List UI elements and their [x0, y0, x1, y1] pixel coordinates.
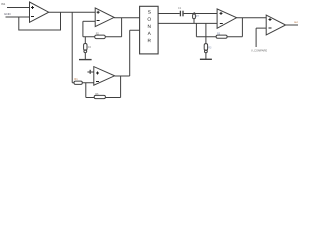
- wire R7 down: [193, 19, 195, 24]
- svg-text:R6: R6: [95, 92, 99, 96]
- resistor R1: [74, 81, 82, 84]
- svg-text:A: A: [148, 31, 152, 37]
- svg-text:GND: GND: [4, 12, 12, 16]
- resistor R3: [204, 44, 207, 51]
- ground 2: [200, 58, 212, 60]
- wire U3 feedback bottom: [86, 97, 121, 99]
- wire R3 chain down: [205, 23, 207, 43]
- node circle terminal 2: [205, 50, 208, 53]
- wire U1 feedback: [19, 12, 61, 30]
- wire input 2: [6, 16, 30, 18]
- svg-text:R3: R3: [208, 46, 212, 49]
- resistor R2: [95, 35, 106, 39]
- label SONAR: [147, 10, 151, 44]
- op-amp U3: [94, 67, 115, 86]
- svg-text:R1: R1: [74, 77, 78, 81]
- wire U4 feedback right vertical: [241, 18, 243, 37]
- wire U3 feedback right vertical: [120, 76, 122, 98]
- op-amp U4: [217, 9, 237, 28]
- wire U4 output to U5: [237, 17, 267, 19]
- svg-text:R2: R2: [96, 32, 100, 36]
- junction dot: [193, 12, 195, 14]
- capacitor C2 at U3 input: [87, 70, 93, 74]
- wire SONAR right bottom: [158, 22, 217, 24]
- wire U2 inverting input: [83, 20, 95, 22]
- wire U3 output: [115, 30, 140, 76]
- svg-text:R7: R7: [196, 15, 200, 18]
- resistor R4: [84, 44, 87, 51]
- resistor R6: [94, 95, 105, 98]
- resistor R5: [216, 35, 227, 38]
- svg-text:IN1: IN1: [1, 2, 6, 6]
- SONAR module box: [140, 6, 159, 54]
- op-amp U1: [30, 2, 49, 22]
- wire U2 output to SONAR: [114, 17, 140, 19]
- svg-text:N: N: [148, 24, 152, 30]
- svg-text:O: O: [147, 17, 151, 23]
- svg-text:C1: C1: [178, 6, 182, 10]
- svg-text:R4: R4: [88, 45, 92, 49]
- wire U1 output to U2: [49, 11, 95, 13]
- wire U5 inverting input: [256, 28, 266, 47]
- wire U5 output: [286, 24, 298, 26]
- wire U3 feedback left vertical: [85, 83, 87, 98]
- op-amp U2: [95, 8, 114, 27]
- wire U4 feedback left vertical: [195, 23, 197, 36]
- node circle terminal: [84, 50, 87, 53]
- svg-text:V_COMPARE: V_COMPARE: [251, 49, 267, 53]
- wire U2 inverting node down: [83, 21, 85, 43]
- svg-text:S: S: [148, 10, 151, 16]
- op-amp U5: [266, 15, 285, 35]
- wire U2 feedback bottom: [83, 36, 122, 38]
- ground: [79, 59, 92, 61]
- wire R1 to U3 inverting input: [72, 82, 94, 84]
- wire SONAR right top: [158, 13, 180, 15]
- svg-text:out: out: [294, 20, 298, 24]
- resistor R7 vertical: [193, 14, 196, 19]
- wire to ground 2: [205, 53, 207, 59]
- wire to ground: [84, 53, 86, 60]
- wire C1 to U4: [184, 13, 218, 15]
- wire node A vertical down: [71, 12, 73, 83]
- svg-text:R: R: [148, 38, 152, 44]
- wire U4 feedback bottom: [196, 36, 242, 38]
- wire input 1: [7, 7, 30, 9]
- wire U2 feedback right vertical: [121, 18, 123, 37]
- capacitor C1: [180, 11, 183, 17]
